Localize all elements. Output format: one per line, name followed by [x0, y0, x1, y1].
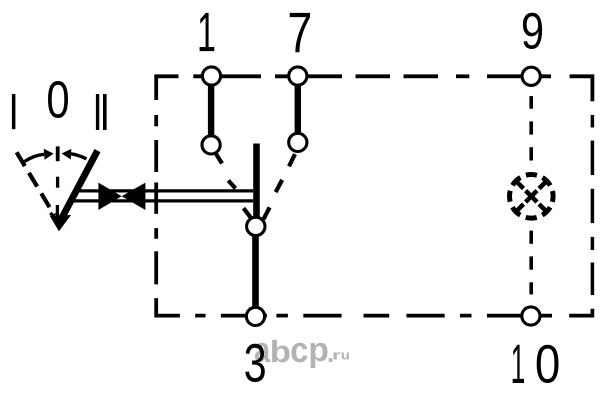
- terminal 3 circle: [246, 307, 264, 325]
- right travel arc arrow: [71, 154, 87, 159]
- actuator lever (position II, solid): [61, 151, 98, 221]
- wire pole arm (common): [253, 144, 260, 221]
- lamp cross arm SE: [539, 204, 548, 213]
- position I dashed line: [17, 152, 55, 215]
- wire terminal 7 to fixed contact: [295, 80, 301, 138]
- dashed wire lamp to terminal 10: [529, 231, 533, 295]
- lever arrowhead at pivot: [50, 215, 71, 231]
- lamp center cross: [526, 191, 537, 202]
- terminal 10 circle: [522, 307, 540, 325]
- box right edge: [591, 115, 595, 295]
- lamp cross arm NW: [515, 180, 524, 189]
- label terminal 7: [290, 13, 310, 52]
- mechanical link double line upper: [74, 189, 253, 192]
- terminal 7 circle: [289, 67, 307, 85]
- label terminal 10: [513, 345, 524, 383]
- position 0 dashed line: [56, 177, 59, 220]
- terminal 1 circle: [202, 67, 220, 85]
- left travel arc arrow: [25, 154, 45, 161]
- label terminal 3: [245, 344, 264, 382]
- position 0 line: tick mark: [56, 146, 60, 161]
- wire pivot to terminal 3: [252, 230, 259, 312]
- watermark abcp.ru: [255, 340, 349, 368]
- box top edge (dash-dot switch body outline): [156, 76, 592, 101]
- mechanical link double line lower: [69, 199, 254, 202]
- dashed contact path from contact 7 to pivot: [264, 154, 296, 219]
- fixed contact circle under terminal 1: [202, 136, 220, 154]
- label position 0: [48, 81, 68, 118]
- detent bowtie right triangle: [122, 183, 146, 210]
- label position II: [96, 94, 99, 130]
- dashed wire terminal 9 to lamp: [529, 96, 533, 160]
- box bottom edge: [195, 309, 592, 316]
- detent bowtie left triangle: [98, 183, 121, 210]
- fixed contact circle under terminal 7: [289, 133, 307, 151]
- wire terminal 1 to fixed contact: [208, 80, 214, 140]
- label terminal 9: [523, 13, 542, 49]
- dashed contact path from contact 1 to pivot: [216, 153, 252, 218]
- label position I: [12, 94, 16, 129]
- lamp cross arm NE: [539, 180, 548, 189]
- terminal 9 circle: [522, 67, 540, 85]
- pivot contact circle: [247, 217, 265, 235]
- illumination lamp dashed circle: [510, 175, 554, 219]
- box left edge: [156, 115, 180, 316]
- label terminal 1: [200, 13, 215, 51]
- position 0 arrow barb: [50, 213, 55, 219]
- lamp cross arm SW: [515, 204, 524, 213]
